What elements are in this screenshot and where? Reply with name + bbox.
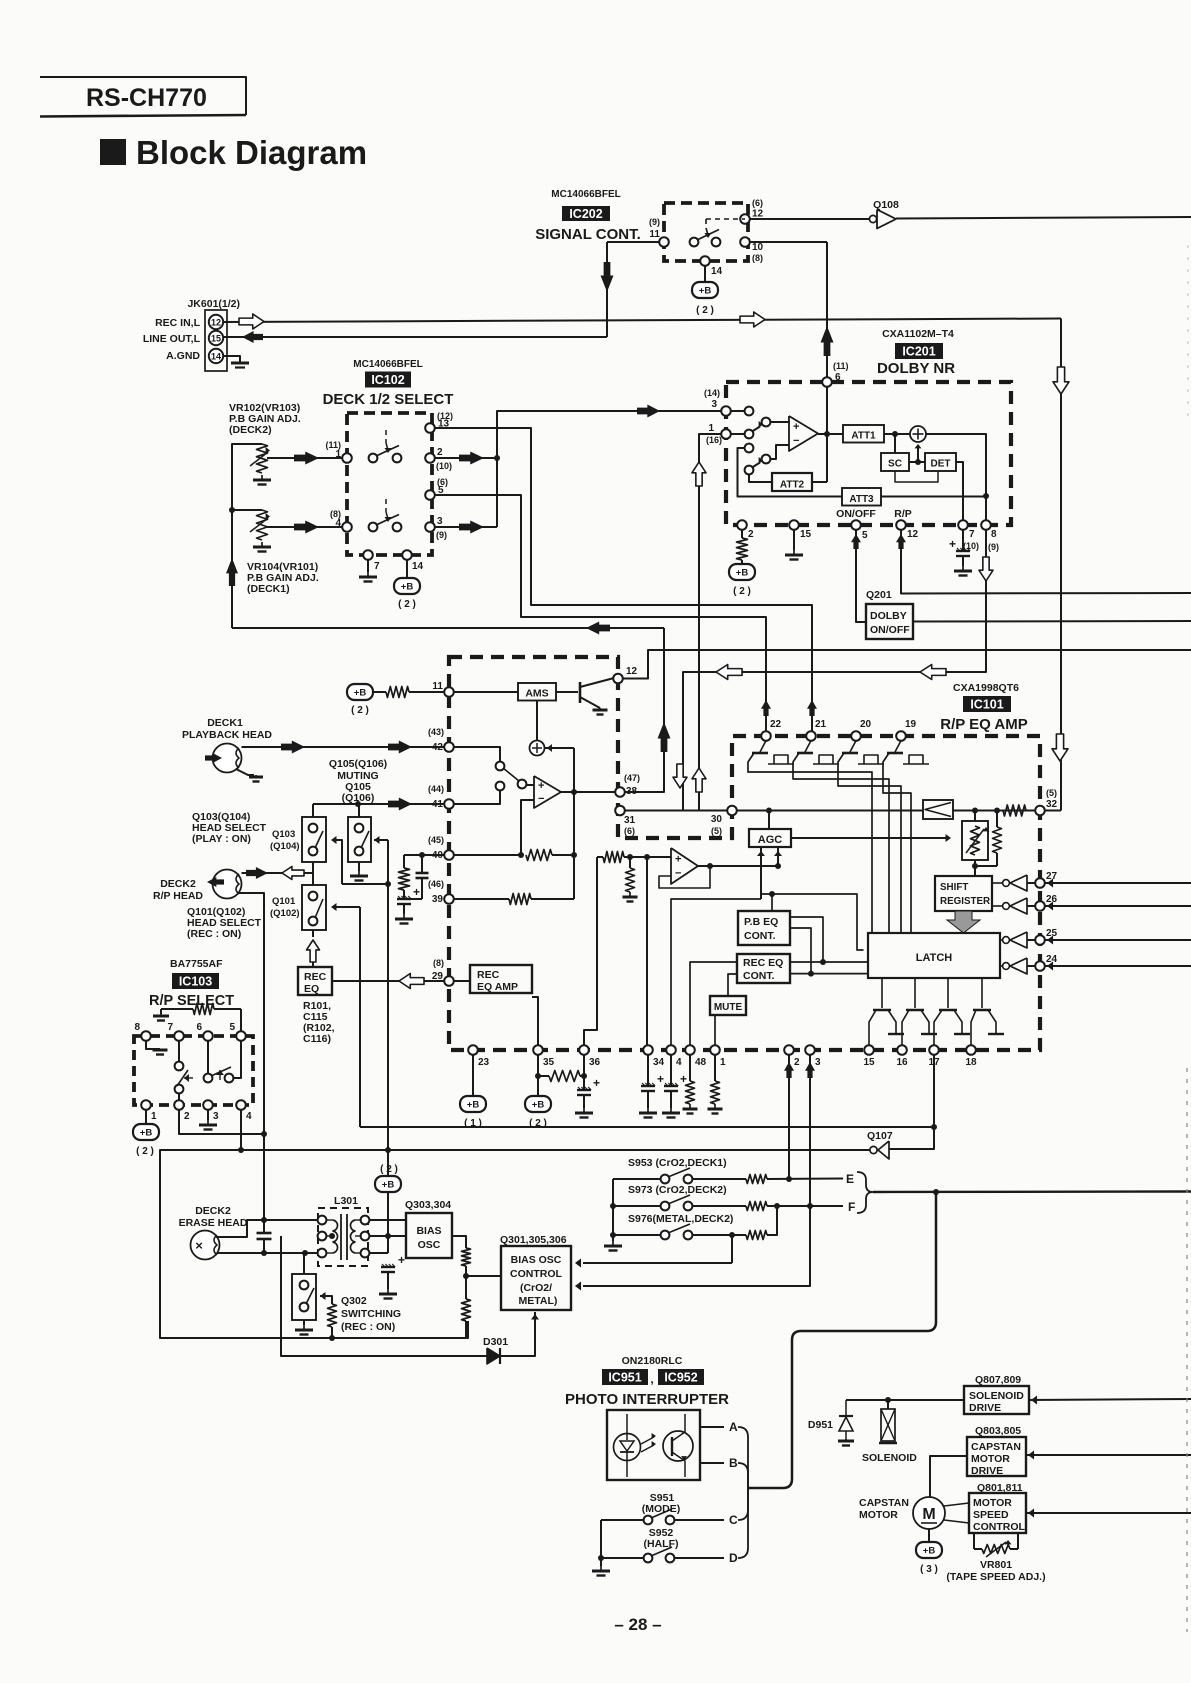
svg-text:Q103: Q103 bbox=[272, 829, 295, 840]
svg-text:6: 6 bbox=[835, 372, 841, 383]
svg-text:LINE OUT,L: LINE OUT,L bbox=[143, 333, 201, 345]
svg-text:+: + bbox=[793, 421, 799, 433]
svg-text:18: 18 bbox=[965, 1057, 977, 1068]
svg-text:Q107: Q107 bbox=[867, 1130, 893, 1142]
svg-text:(43): (43) bbox=[428, 727, 444, 737]
svg-text:5: 5 bbox=[862, 530, 868, 541]
svg-text:(REC : ON): (REC : ON) bbox=[187, 928, 241, 940]
svg-text:AMS: AMS bbox=[525, 688, 548, 700]
svg-text:Q201: Q201 bbox=[866, 589, 892, 601]
svg-text:12: 12 bbox=[752, 209, 764, 220]
svg-text:(44): (44) bbox=[428, 784, 444, 794]
svg-text:(Q106): (Q106) bbox=[342, 792, 375, 804]
svg-text:25: 25 bbox=[1046, 928, 1058, 939]
svg-text:(REC : ON): (REC : ON) bbox=[341, 1321, 395, 1333]
svg-text:IC103: IC103 bbox=[179, 975, 212, 989]
svg-text:REC: REC bbox=[304, 971, 327, 983]
svg-text:+B: +B bbox=[923, 1546, 936, 1557]
svg-text:7: 7 bbox=[374, 561, 380, 572]
svg-text:BA7755AF: BA7755AF bbox=[170, 958, 223, 970]
svg-text:48: 48 bbox=[695, 1057, 707, 1068]
svg-text:DECK2: DECK2 bbox=[160, 878, 196, 890]
svg-text:35: 35 bbox=[543, 1057, 555, 1068]
svg-text:CONT.: CONT. bbox=[744, 930, 776, 942]
svg-text:26: 26 bbox=[1046, 894, 1058, 905]
svg-text:ERASE HEAD: ERASE HEAD bbox=[179, 1217, 248, 1229]
svg-text:S953 (CrO2,DECK1): S953 (CrO2,DECK1) bbox=[628, 1157, 727, 1169]
svg-text:(HALF): (HALF) bbox=[644, 1538, 679, 1550]
svg-text:3: 3 bbox=[437, 516, 443, 527]
svg-text:CAPSTAN: CAPSTAN bbox=[971, 1441, 1021, 1453]
svg-text:(5): (5) bbox=[1046, 788, 1057, 798]
svg-text:32: 32 bbox=[1046, 799, 1058, 810]
svg-text:(16): (16) bbox=[706, 435, 722, 445]
svg-text:31: 31 bbox=[624, 815, 636, 826]
svg-text:DECK1: DECK1 bbox=[207, 717, 243, 729]
svg-text:B: B bbox=[729, 1456, 738, 1470]
svg-text:IC201: IC201 bbox=[902, 345, 935, 359]
svg-text:EQ: EQ bbox=[304, 983, 319, 995]
svg-text:(Q104): (Q104) bbox=[270, 841, 300, 852]
svg-text:15: 15 bbox=[211, 333, 221, 343]
svg-text:MC14066BFEL: MC14066BFEL bbox=[353, 359, 422, 370]
svg-text:RS-CH770: RS-CH770 bbox=[86, 84, 207, 112]
svg-text:( 2 ): ( 2 ) bbox=[733, 586, 751, 597]
svg-text:+B: +B bbox=[736, 568, 749, 579]
svg-text:JK601(1/2): JK601(1/2) bbox=[187, 298, 240, 310]
svg-text:F: F bbox=[848, 1200, 855, 1214]
svg-text:CXA1998QT6: CXA1998QT6 bbox=[953, 682, 1019, 694]
svg-text:−: − bbox=[675, 868, 681, 880]
svg-text:IC202: IC202 bbox=[569, 207, 602, 221]
svg-text:11: 11 bbox=[432, 681, 443, 692]
svg-text:Q303,304: Q303,304 bbox=[405, 1199, 451, 1211]
svg-text:C: C bbox=[729, 1513, 738, 1527]
svg-text:EQ AMP: EQ AMP bbox=[477, 981, 518, 993]
svg-text:CONTROL: CONTROL bbox=[510, 1268, 562, 1280]
svg-text:– 28 –: – 28 – bbox=[614, 1615, 661, 1634]
svg-text:MC14066BFEL: MC14066BFEL bbox=[551, 189, 620, 200]
svg-text:DOLBY: DOLBY bbox=[870, 610, 907, 622]
svg-text:+B: +B bbox=[699, 286, 712, 297]
svg-text:Q101: Q101 bbox=[272, 896, 296, 907]
svg-text:2: 2 bbox=[184, 1111, 190, 1122]
svg-text:MOTOR: MOTOR bbox=[971, 1453, 1010, 1465]
svg-text:14: 14 bbox=[711, 266, 723, 277]
svg-text:+B: +B bbox=[354, 688, 367, 699]
svg-text:CAPSTAN: CAPSTAN bbox=[859, 1497, 909, 1509]
svg-text:LATCH: LATCH bbox=[916, 952, 953, 964]
svg-text:(DECK1): (DECK1) bbox=[247, 583, 290, 595]
svg-text:1: 1 bbox=[708, 423, 714, 434]
svg-text:11: 11 bbox=[649, 229, 660, 240]
svg-text:ATT3: ATT3 bbox=[849, 494, 874, 505]
svg-text:D: D bbox=[729, 1551, 738, 1565]
svg-text:15: 15 bbox=[800, 529, 812, 540]
svg-text:+: + bbox=[593, 1076, 600, 1090]
svg-text:D951: D951 bbox=[808, 1419, 833, 1431]
svg-text:,: , bbox=[650, 1372, 653, 1386]
svg-text:+B: +B bbox=[401, 582, 414, 593]
svg-text:(CrO2/: (CrO2/ bbox=[520, 1282, 552, 1294]
svg-text:14: 14 bbox=[412, 561, 424, 572]
svg-text:(46): (46) bbox=[428, 879, 444, 889]
svg-text:2: 2 bbox=[437, 447, 443, 458]
svg-text:( 2 ): ( 2 ) bbox=[351, 705, 369, 716]
svg-text:Q807,809: Q807,809 bbox=[975, 1374, 1021, 1386]
svg-text:Block Diagram: Block Diagram bbox=[136, 134, 367, 171]
svg-text:(14): (14) bbox=[704, 388, 720, 398]
svg-text:+: + bbox=[538, 780, 544, 792]
svg-text:IC102: IC102 bbox=[371, 373, 404, 387]
svg-text:R/P SELECT: R/P SELECT bbox=[149, 993, 234, 1009]
svg-text:REC IN,L: REC IN,L bbox=[155, 317, 201, 329]
svg-text:Q108: Q108 bbox=[873, 199, 899, 211]
svg-text:ON2180RLC: ON2180RLC bbox=[622, 1355, 683, 1367]
svg-text:3: 3 bbox=[711, 399, 717, 410]
svg-text:( 3 ): ( 3 ) bbox=[920, 1564, 938, 1575]
svg-text:CONT.: CONT. bbox=[743, 970, 775, 982]
svg-text:DET: DET bbox=[931, 459, 951, 470]
svg-text:REC: REC bbox=[477, 969, 500, 981]
svg-text:30: 30 bbox=[711, 814, 723, 825]
svg-text:Q301,305,306: Q301,305,306 bbox=[500, 1234, 567, 1246]
svg-text:20: 20 bbox=[860, 719, 872, 730]
svg-text:SOLENOID: SOLENOID bbox=[862, 1452, 917, 1464]
svg-text:VR801: VR801 bbox=[980, 1559, 1012, 1571]
svg-text:SPEED: SPEED bbox=[973, 1509, 1009, 1521]
svg-text:16: 16 bbox=[896, 1057, 908, 1068]
svg-text:C116): C116) bbox=[303, 1033, 331, 1045]
svg-text:S976(METAL,DECK2): S976(METAL,DECK2) bbox=[628, 1213, 733, 1225]
svg-text:SIGNAL CONT.: SIGNAL CONT. bbox=[535, 226, 641, 243]
svg-text:7: 7 bbox=[167, 1022, 173, 1033]
svg-text:( 2 ): ( 2 ) bbox=[398, 599, 416, 610]
svg-text:IC952: IC952 bbox=[664, 1371, 697, 1385]
svg-text:A: A bbox=[729, 1420, 738, 1434]
svg-text:METAL): METAL) bbox=[519, 1295, 558, 1307]
svg-text:R/P HEAD: R/P HEAD bbox=[153, 890, 203, 902]
svg-text:6: 6 bbox=[196, 1022, 202, 1033]
svg-text:IC951: IC951 bbox=[608, 1371, 641, 1385]
svg-text:3: 3 bbox=[213, 1111, 219, 1122]
svg-text:+B: +B bbox=[467, 1100, 480, 1111]
svg-text:+: + bbox=[949, 537, 956, 551]
svg-text:M: M bbox=[922, 1506, 935, 1523]
svg-text:4: 4 bbox=[676, 1057, 682, 1068]
svg-text:CXA1102M–T4: CXA1102M–T4 bbox=[882, 328, 954, 340]
svg-text:36: 36 bbox=[589, 1057, 601, 1068]
svg-text:DRIVE: DRIVE bbox=[971, 1465, 1003, 1477]
svg-text:+: + bbox=[657, 1072, 664, 1086]
svg-text:2: 2 bbox=[748, 529, 754, 540]
svg-text:12: 12 bbox=[211, 317, 221, 327]
svg-text:−: − bbox=[793, 435, 799, 447]
svg-text:15: 15 bbox=[863, 1057, 875, 1068]
svg-text:PHOTO INTERRUPTER: PHOTO INTERRUPTER bbox=[565, 1391, 729, 1408]
svg-text:24: 24 bbox=[1046, 954, 1058, 965]
svg-text:(9): (9) bbox=[988, 542, 999, 552]
svg-text:5: 5 bbox=[229, 1022, 235, 1033]
svg-text:(8): (8) bbox=[752, 253, 763, 263]
svg-text:PLAYBACK HEAD: PLAYBACK HEAD bbox=[182, 729, 272, 741]
svg-text:+: + bbox=[398, 1253, 405, 1267]
svg-text:+B: +B bbox=[140, 1128, 153, 1139]
svg-text:REGISTER: REGISTER bbox=[940, 896, 990, 907]
svg-text:R/P: R/P bbox=[894, 508, 912, 520]
svg-text:ON/OFF: ON/OFF bbox=[870, 624, 910, 636]
svg-text:R/P EQ AMP: R/P EQ AMP bbox=[940, 716, 1028, 733]
svg-text:21: 21 bbox=[815, 719, 827, 730]
svg-text:19: 19 bbox=[905, 719, 917, 730]
svg-text:AGC: AGC bbox=[758, 834, 783, 846]
svg-text:REC EQ: REC EQ bbox=[743, 957, 783, 969]
svg-text:23: 23 bbox=[478, 1057, 490, 1068]
svg-text:IC101: IC101 bbox=[970, 698, 1003, 712]
svg-text:MUTE: MUTE bbox=[714, 1002, 743, 1013]
svg-text:(8): (8) bbox=[433, 958, 444, 968]
svg-text:42: 42 bbox=[432, 742, 444, 753]
svg-text:(DECK2): (DECK2) bbox=[229, 424, 272, 436]
svg-text:27: 27 bbox=[1046, 871, 1058, 882]
svg-text:(6): (6) bbox=[752, 198, 763, 208]
svg-text:ON/OFF: ON/OFF bbox=[836, 508, 876, 520]
svg-text:39: 39 bbox=[432, 894, 444, 905]
svg-text:Q302: Q302 bbox=[341, 1295, 367, 1307]
svg-text:+: + bbox=[413, 885, 420, 899]
svg-text:8: 8 bbox=[991, 529, 997, 540]
svg-text:OSC: OSC bbox=[418, 1239, 441, 1251]
svg-text:1: 1 bbox=[720, 1057, 726, 1068]
svg-text:1: 1 bbox=[151, 1111, 157, 1122]
svg-text:(Q102): (Q102) bbox=[270, 908, 300, 919]
svg-text:+: + bbox=[675, 853, 681, 865]
svg-text:22: 22 bbox=[770, 719, 782, 730]
svg-text:(TAPE SPEED ADJ.): (TAPE SPEED ADJ.) bbox=[946, 1571, 1045, 1583]
svg-text:Q105(Q106): Q105(Q106) bbox=[329, 758, 387, 770]
svg-text:(11): (11) bbox=[833, 361, 849, 371]
svg-text:(9): (9) bbox=[649, 217, 660, 227]
svg-text:BIAS OSC: BIAS OSC bbox=[511, 1254, 562, 1266]
svg-text:SWITCHING: SWITCHING bbox=[341, 1308, 401, 1320]
svg-text:3: 3 bbox=[815, 1057, 821, 1068]
svg-text:P.B EQ: P.B EQ bbox=[744, 916, 778, 928]
svg-text:×: × bbox=[195, 1238, 203, 1253]
svg-text:SOLENOID: SOLENOID bbox=[969, 1390, 1024, 1402]
svg-text:S973 (CrO2,DECK2): S973 (CrO2,DECK2) bbox=[628, 1184, 727, 1196]
svg-text:MOTOR: MOTOR bbox=[973, 1497, 1012, 1509]
svg-text:34: 34 bbox=[653, 1057, 665, 1068]
svg-text:DRIVE: DRIVE bbox=[969, 1402, 1001, 1414]
svg-text:+: + bbox=[680, 1072, 687, 1086]
svg-text:(10): (10) bbox=[436, 461, 452, 471]
svg-text:2: 2 bbox=[794, 1057, 800, 1068]
svg-text:+B: +B bbox=[382, 1180, 395, 1191]
svg-text:4: 4 bbox=[246, 1111, 252, 1122]
svg-text:10: 10 bbox=[752, 242, 764, 253]
svg-text:D301: D301 bbox=[483, 1336, 508, 1348]
svg-text:(47): (47) bbox=[624, 773, 640, 783]
svg-text:(9): (9) bbox=[436, 530, 447, 540]
svg-text:( 2 ): ( 2 ) bbox=[696, 305, 714, 316]
svg-text:DECK 1/2 SELECT: DECK 1/2 SELECT bbox=[323, 391, 454, 408]
svg-text:L301: L301 bbox=[334, 1195, 358, 1207]
svg-text:SHIFT: SHIFT bbox=[940, 882, 968, 893]
svg-text:SC: SC bbox=[888, 459, 902, 470]
svg-text:Q803,805: Q803,805 bbox=[975, 1425, 1021, 1437]
svg-text:8: 8 bbox=[134, 1022, 140, 1033]
svg-text:CONTROL: CONTROL bbox=[973, 1521, 1025, 1533]
svg-text:DECK2: DECK2 bbox=[195, 1205, 231, 1217]
svg-text:12: 12 bbox=[907, 529, 919, 540]
svg-text:BIAS: BIAS bbox=[416, 1225, 441, 1237]
svg-text:7: 7 bbox=[969, 529, 975, 540]
svg-text:(5): (5) bbox=[711, 826, 722, 836]
svg-text:( 2 ): ( 2 ) bbox=[136, 1146, 154, 1157]
svg-text:(45): (45) bbox=[428, 835, 444, 845]
svg-text:−: − bbox=[538, 793, 544, 805]
svg-text:14: 14 bbox=[211, 351, 221, 361]
svg-text:DOLBY NR: DOLBY NR bbox=[877, 360, 955, 377]
svg-text:A.GND: A.GND bbox=[166, 350, 200, 362]
svg-text:(PLAY : ON): (PLAY : ON) bbox=[192, 833, 251, 845]
svg-text:(6): (6) bbox=[624, 826, 635, 836]
svg-text:ATT1: ATT1 bbox=[851, 431, 876, 442]
svg-text:12: 12 bbox=[626, 666, 638, 677]
svg-text:MOTOR: MOTOR bbox=[859, 1509, 898, 1521]
svg-text:+B: +B bbox=[532, 1100, 545, 1111]
svg-text:E: E bbox=[846, 1172, 854, 1186]
svg-text:ATT2: ATT2 bbox=[780, 480, 805, 491]
